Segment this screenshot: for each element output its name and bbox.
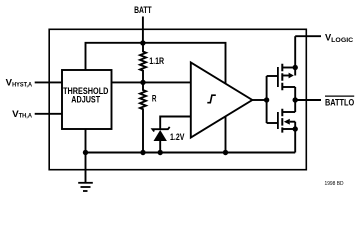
svg-text:1.2V: 1.2V [170, 132, 184, 142]
svg-text:TH,A: TH,A [19, 113, 33, 120]
svg-text:1998 BD: 1998 BD [325, 181, 344, 187]
svg-text:BATTLO: BATTLO [325, 98, 354, 108]
svg-text:ADJUST: ADJUST [71, 95, 100, 105]
svg-text:LOGIC: LOGIC [331, 37, 353, 44]
svg-text:R: R [152, 94, 157, 104]
svg-text:BATT: BATT [134, 5, 152, 15]
svg-text:1.1R: 1.1R [149, 56, 164, 66]
svg-text:HYST,A: HYST,A [12, 81, 32, 88]
